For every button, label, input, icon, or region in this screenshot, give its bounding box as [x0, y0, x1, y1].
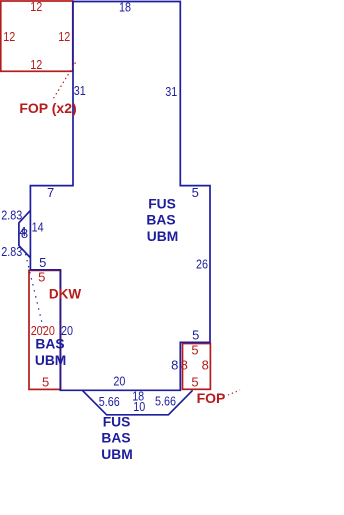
svg-text:8: 8 — [181, 358, 188, 373]
main dwelling outline FUS/BAS/UBM (blue polygon) — [30, 2, 210, 391]
svg-text:2.83: 2.83 — [1, 208, 22, 223]
svg-text:20: 20 — [113, 374, 125, 389]
svg-text:BAS: BAS — [146, 213, 175, 228]
svg-text:8: 8 — [171, 358, 178, 373]
svg-text:12: 12 — [3, 29, 15, 44]
svg-text:5: 5 — [191, 342, 198, 357]
svg-text:UBM: UBM — [35, 353, 66, 368]
svg-text:14: 14 — [32, 220, 44, 235]
svg-text:5.66: 5.66 — [155, 394, 176, 409]
svg-text:8: 8 — [21, 226, 28, 241]
left bay window wall — [19, 210, 31, 257]
DKW deck outline (red rectangle) — [29, 270, 61, 389]
svg-text:10: 10 — [133, 399, 145, 414]
svg-text:5: 5 — [38, 269, 45, 284]
svg-text:31: 31 — [165, 84, 177, 99]
svg-text:5.66: 5.66 — [99, 394, 120, 409]
svg-text:UBM: UBM — [147, 229, 178, 244]
svg-text:BAS: BAS — [101, 431, 130, 446]
svg-text:12: 12 — [30, 57, 42, 72]
svg-text:5: 5 — [42, 375, 49, 390]
leader line from FOP label (red dotted) — [228, 390, 240, 395]
svg-text:FOP: FOP — [197, 390, 226, 406]
svg-text:12: 12 — [58, 29, 70, 44]
svg-text:5: 5 — [191, 374, 198, 389]
svg-text:FUS: FUS — [103, 414, 131, 429]
FOP porch outline (top-left red square) — [1, 1, 73, 71]
svg-text:18: 18 — [119, 0, 131, 15]
svg-text:26: 26 — [196, 257, 208, 272]
leader line to FOP (x2) label (red dashed) — [53, 63, 76, 101]
svg-text:BAS: BAS — [35, 336, 64, 351]
svg-text:7: 7 — [47, 185, 54, 200]
svg-text:5: 5 — [39, 255, 46, 270]
svg-text:UBM: UBM — [101, 447, 132, 462]
svg-text:5: 5 — [192, 328, 199, 343]
svg-text:2.83: 2.83 — [1, 244, 22, 259]
svg-text:8: 8 — [202, 358, 209, 373]
bottom bay window wall — [82, 390, 192, 415]
svg-text:12: 12 — [30, 0, 42, 14]
FOP porch outline (bottom-right red rectangle) — [183, 344, 211, 390]
svg-text:FOP (x2): FOP (x2) — [19, 100, 76, 116]
svg-text:5: 5 — [192, 185, 199, 200]
svg-text:DKW: DKW — [49, 287, 81, 302]
svg-text:FUS: FUS — [148, 196, 176, 211]
leader line through DKW area (blue dotted) — [26, 254, 44, 329]
svg-text:31: 31 — [74, 83, 86, 98]
